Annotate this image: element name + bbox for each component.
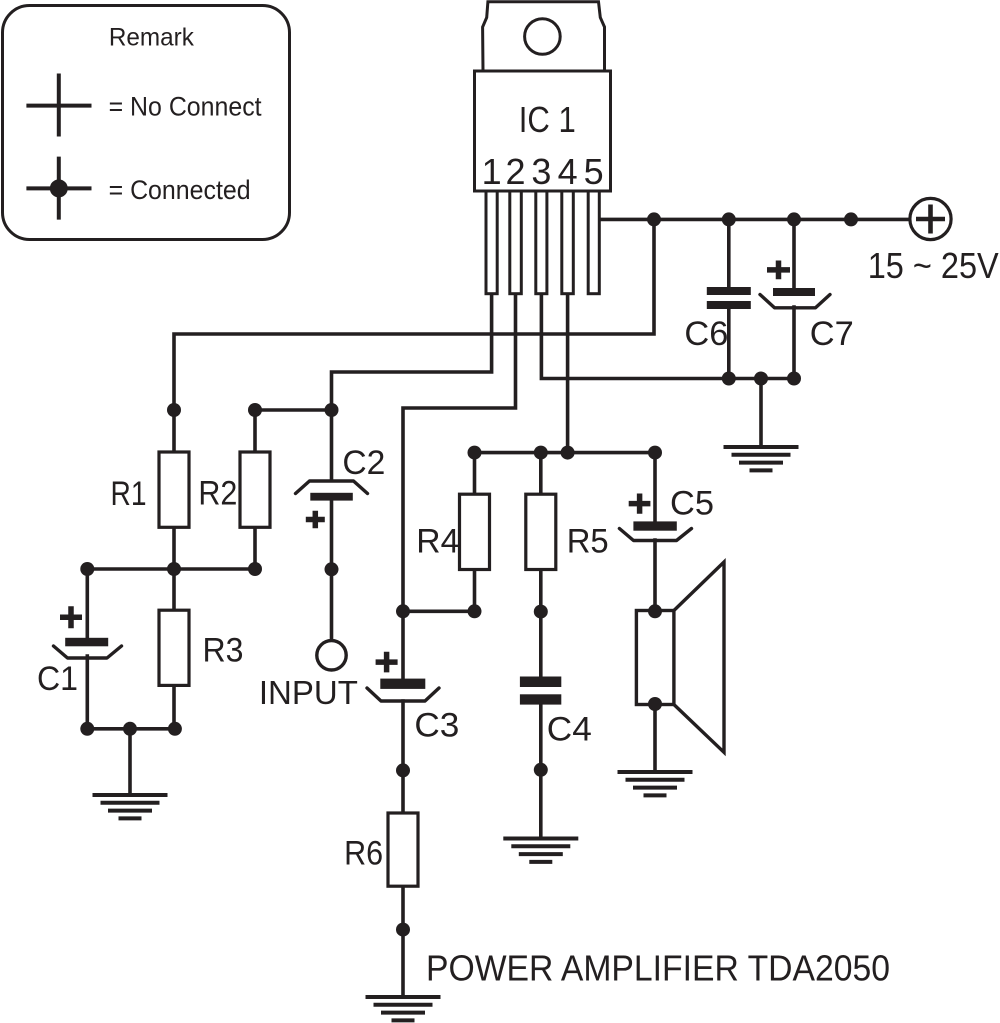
svg-text:3: 3 bbox=[531, 151, 551, 192]
svg-text:INPUT: INPUT bbox=[259, 675, 358, 712]
svg-text:C1: C1 bbox=[37, 660, 78, 698]
svg-text:R1: R1 bbox=[111, 475, 147, 513]
svg-text:R4: R4 bbox=[416, 522, 459, 560]
svg-text:C5: C5 bbox=[670, 485, 714, 523]
svg-text:Remark: Remark bbox=[109, 24, 194, 52]
svg-text:POWER AMPLIFIER TDA2050: POWER AMPLIFIER TDA2050 bbox=[426, 948, 890, 989]
svg-text:C2: C2 bbox=[342, 444, 385, 482]
svg-text:4: 4 bbox=[558, 151, 578, 192]
svg-text:5: 5 bbox=[584, 151, 604, 192]
svg-text:C6: C6 bbox=[684, 315, 728, 353]
svg-text:15 ~ 25V: 15 ~ 25V bbox=[868, 245, 999, 286]
svg-text:C7: C7 bbox=[810, 315, 854, 353]
svg-text:2: 2 bbox=[505, 151, 525, 192]
svg-text:IC 1: IC 1 bbox=[519, 99, 576, 140]
svg-text:1: 1 bbox=[482, 151, 502, 192]
svg-text:R2: R2 bbox=[198, 475, 237, 513]
svg-text:= No Connect: = No Connect bbox=[109, 92, 262, 122]
svg-text:R6: R6 bbox=[344, 835, 383, 873]
svg-text:C3: C3 bbox=[414, 707, 459, 745]
svg-text:R5: R5 bbox=[567, 522, 609, 560]
svg-text:C4: C4 bbox=[547, 711, 592, 749]
svg-text:R3: R3 bbox=[203, 632, 244, 670]
svg-text:= Connected: = Connected bbox=[109, 175, 251, 205]
